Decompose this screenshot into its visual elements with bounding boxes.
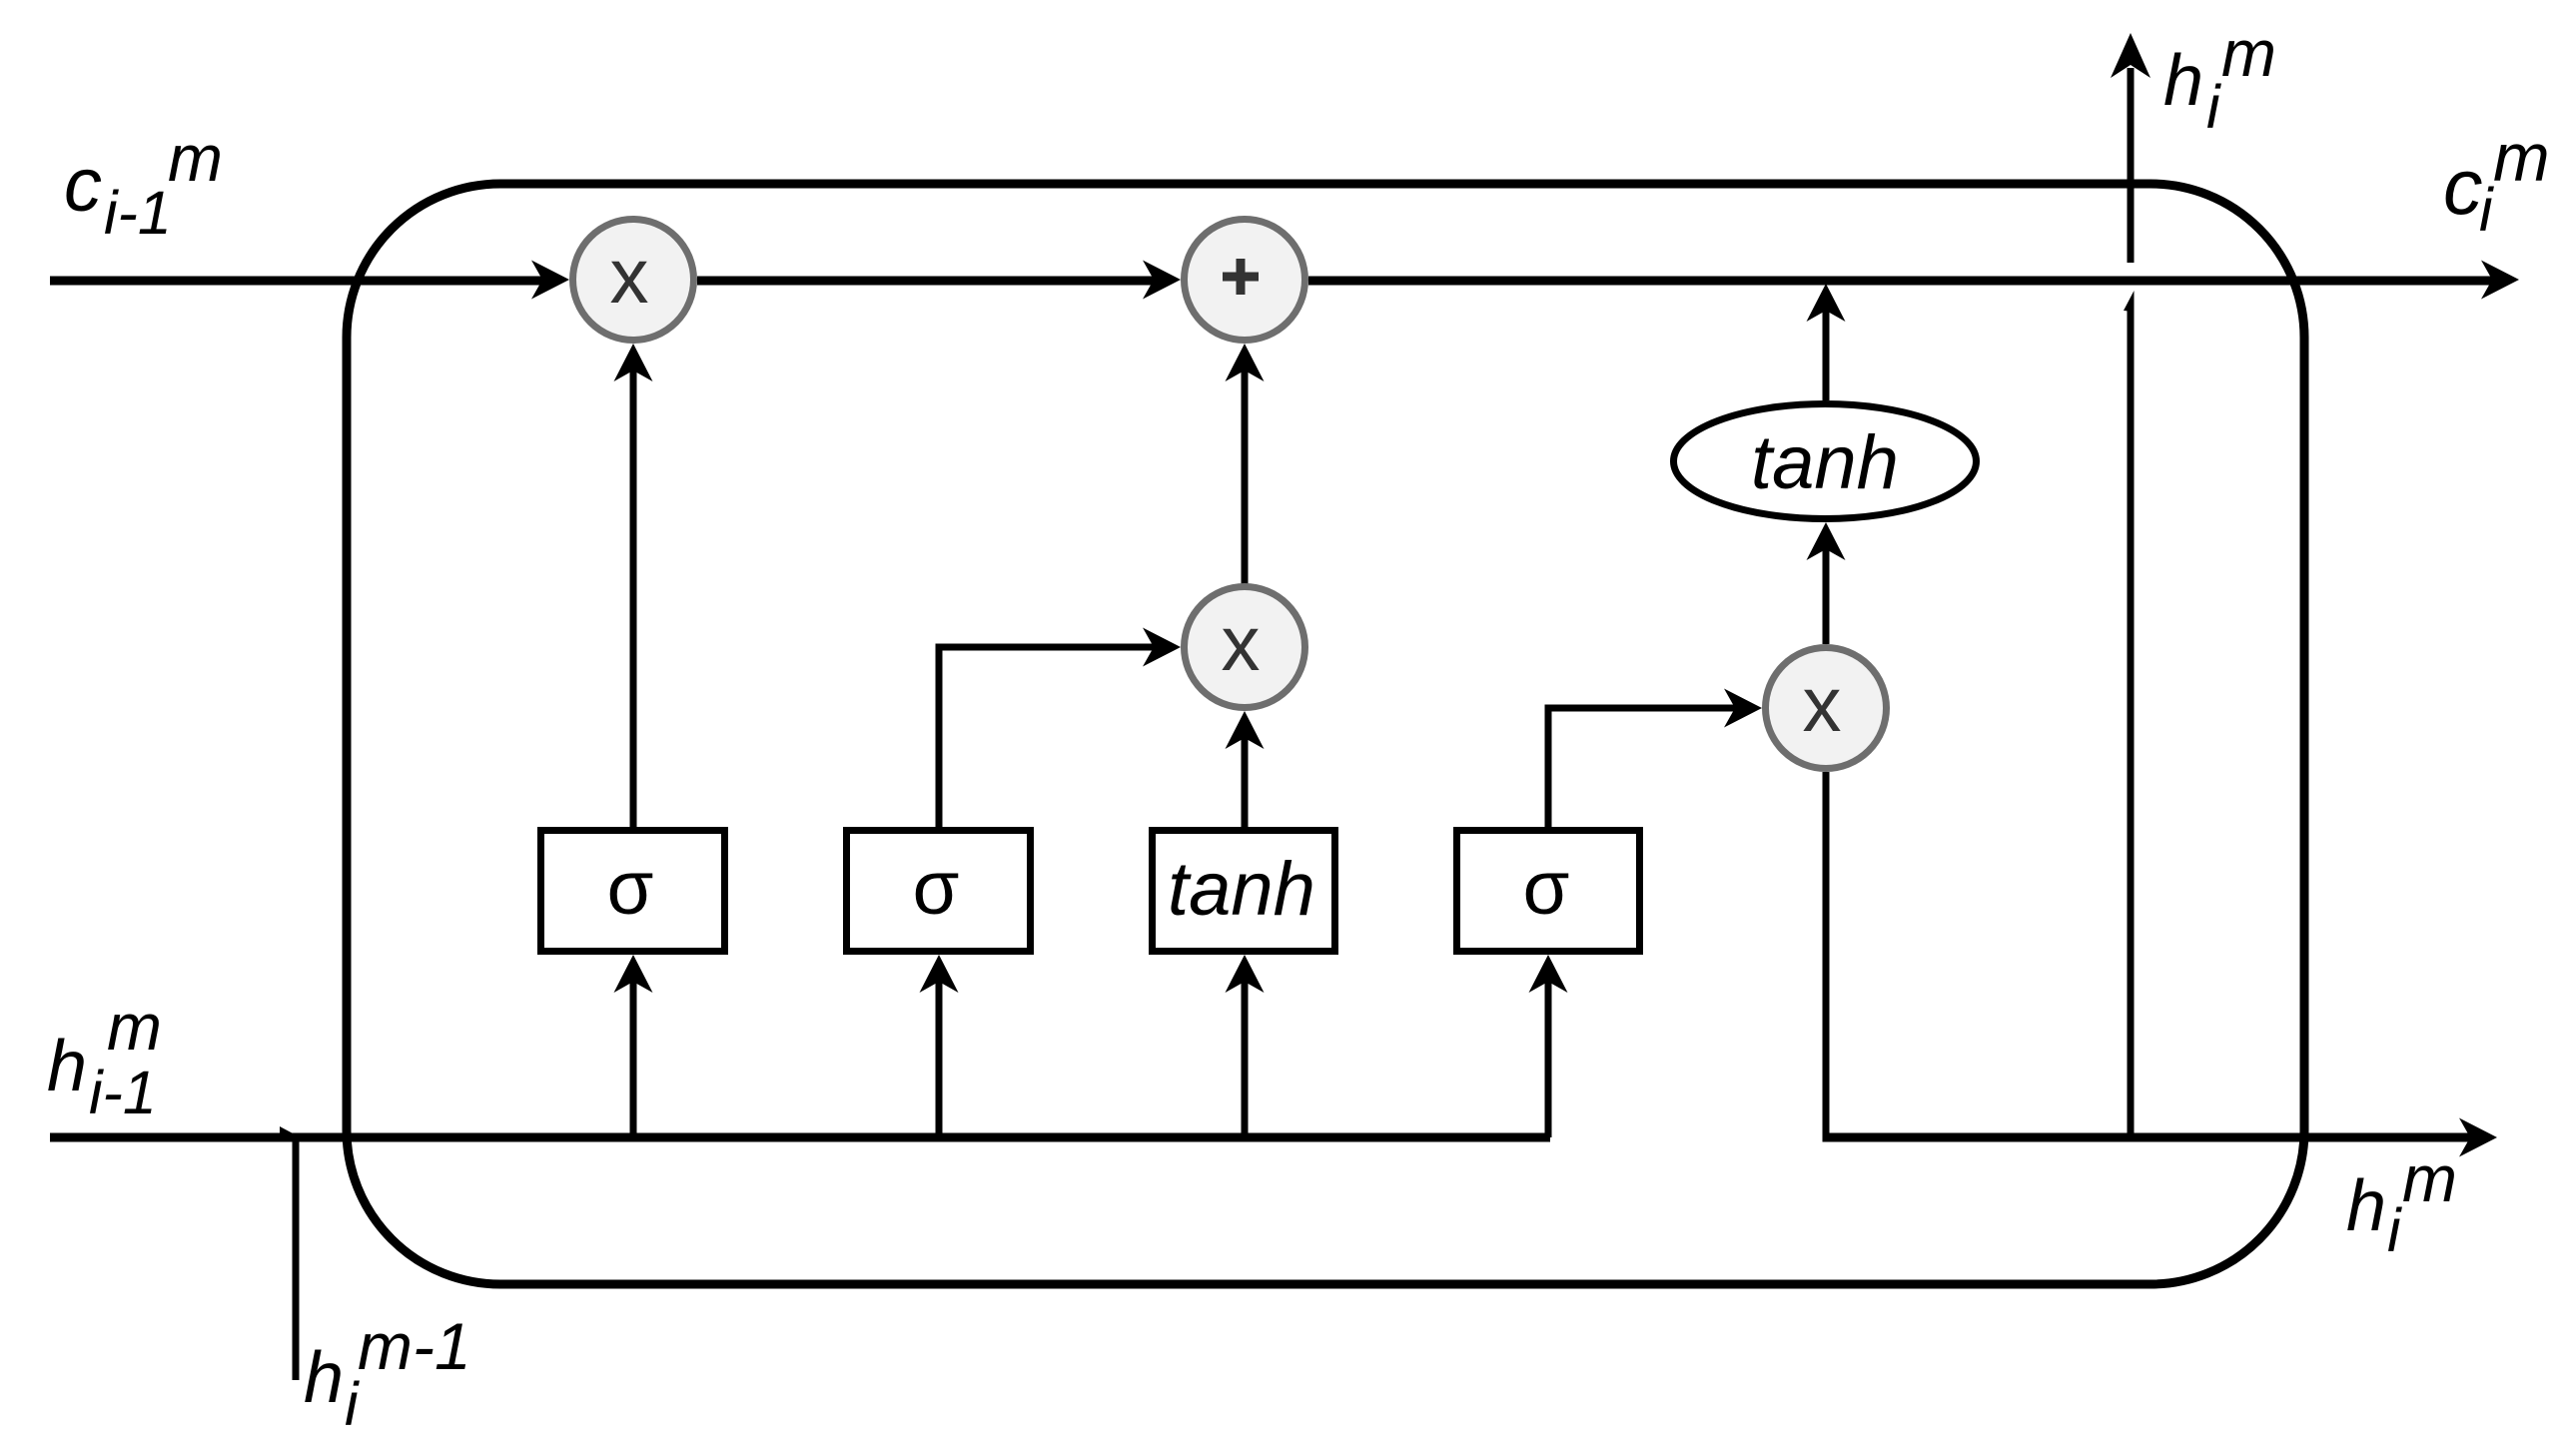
svg-text:σ: σ	[607, 846, 654, 931]
multiply node M2	[1185, 587, 1305, 708]
wire sigma1 output up to M1	[630, 369, 637, 827]
arrow into M2 bottom	[1226, 711, 1265, 749]
svg-text:x: x	[1803, 660, 1842, 748]
wire tanh-box output up to M2	[1242, 737, 1249, 827]
svg-text:m-1: m-1	[358, 1309, 471, 1383]
arrow into tanh ellipse bottom	[1807, 522, 1846, 560]
svg-text:h: h	[2163, 41, 2203, 121]
arrow into A1 bottom	[1226, 344, 1265, 381]
arrow h_i^m output top	[2111, 33, 2150, 78]
arrow into M2 left	[1143, 628, 1181, 667]
input arrow from h-line to sigma1	[630, 981, 637, 1137]
svg-text:i: i	[2387, 1196, 2402, 1264]
svg-text:i-1: i-1	[89, 1059, 157, 1126]
wire h-line right segment with elbow up to multiply node M3	[1823, 772, 1830, 1142]
svg-text:m: m	[2402, 1141, 2457, 1215]
svg-text:m: m	[2221, 16, 2276, 90]
svg-text:i: i	[2206, 73, 2221, 141]
svg-text:h: h	[304, 1338, 344, 1418]
wire h-line left segment	[50, 1133, 1550, 1142]
svg-text:c: c	[2443, 142, 2483, 231]
svg-text:σ: σ	[913, 846, 960, 931]
arrow into M1 bottom	[614, 344, 653, 381]
small half arrowhead under c-line	[2124, 291, 2135, 312]
svg-text:m: m	[168, 121, 223, 195]
arrow into c-line	[1807, 284, 1846, 322]
wire h branch up segment below c-line	[2128, 310, 2135, 1137]
arrow h_i^m output right	[2459, 1118, 2497, 1157]
input arrow from h-line to tanh-box	[1242, 981, 1249, 1137]
svg-text:m: m	[107, 990, 162, 1064]
arrow into add node A1	[1143, 261, 1181, 300]
arrow into M3 left	[1724, 689, 1762, 728]
input arrow from h-line to sigma2	[936, 981, 943, 1137]
wire input h_i^m-1 vertical	[293, 1137, 300, 1380]
svg-text:tanh: tanh	[1168, 847, 1315, 932]
wire c-line middle segment	[697, 277, 1157, 286]
wire c-line left segment	[50, 277, 544, 286]
svg-text:σ: σ	[1523, 846, 1570, 931]
sigma box 3	[1457, 831, 1640, 952]
junction arrow on h-line	[280, 1126, 295, 1134]
wire M3 output up to tanh ellipse	[1823, 548, 1830, 644]
wire tanh ellipse output up to c-line	[1823, 310, 1830, 400]
sigma box 1	[541, 831, 725, 952]
add node A1	[1185, 220, 1305, 341]
input arrow from h-line to sigma3	[1545, 981, 1552, 1137]
tanh ellipse	[1674, 404, 1977, 519]
svg-text:h: h	[47, 1027, 87, 1106]
wire c-line right segment	[1308, 277, 2493, 286]
svg-text:m: m	[2493, 120, 2550, 196]
svg-text:i-1: i-1	[104, 179, 172, 247]
arrow into multiply node M1	[531, 261, 569, 300]
wire h branch upper segment above c-line	[2128, 68, 2135, 263]
multiply node M3	[1766, 648, 1887, 769]
wire M2 output up to A1	[1242, 369, 1249, 584]
svg-text:h: h	[2346, 1166, 2386, 1246]
svg-text:x: x	[1222, 599, 1261, 687]
sigma box 2	[847, 831, 1031, 952]
arrow c_i^m output	[2481, 261, 2519, 300]
svg-text:x: x	[610, 232, 649, 320]
tanh box	[1153, 831, 1335, 952]
wire sigma3 output elbow to M3	[1548, 708, 1740, 827]
svg-text:tanh: tanh	[1751, 420, 1899, 505]
svg-text:i: i	[2479, 176, 2494, 244]
svg-text:c: c	[64, 143, 102, 228]
wire sigma2 output elbow to M2	[939, 647, 1159, 827]
multiply node M1	[573, 220, 694, 341]
LSTM cell body rounded rectangle	[347, 184, 2304, 1284]
